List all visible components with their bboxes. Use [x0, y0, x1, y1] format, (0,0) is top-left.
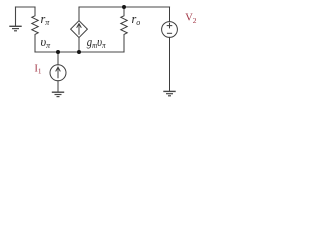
wire — [35, 51, 124, 53]
svg-text:rπ: rπ — [41, 12, 51, 27]
resistor R_o — [121, 7, 127, 52]
wire — [79, 6, 170, 8]
junction dot — [56, 50, 60, 54]
wire — [16, 6, 36, 8]
ground — [164, 91, 175, 95]
svg-text:υπ: υπ — [41, 35, 52, 50]
junction dot — [77, 50, 81, 54]
svg-text:ro: ro — [132, 12, 141, 27]
svg-text:V2: V2 — [185, 13, 197, 26]
svg-text:I1: I1 — [35, 63, 42, 75]
dependent current source gm*v_pi — [71, 7, 88, 52]
ground — [10, 7, 21, 31]
current source I1 — [50, 52, 66, 92]
resistor R_pi — [32, 7, 38, 52]
junction dot — [122, 5, 126, 9]
ground — [53, 92, 64, 96]
voltage source V2 — [162, 7, 178, 91]
svg-text:gmυπ: gmυπ — [87, 35, 107, 50]
